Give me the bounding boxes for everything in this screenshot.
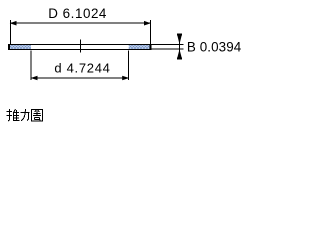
washer section hatch right — [129, 45, 150, 49]
serif B top — [177, 34, 182, 36]
washer right end cap — [150, 44, 152, 50]
serif B bottom — [177, 57, 182, 59]
extension line d left — [30, 51, 32, 81]
dimension line D — [10, 22, 151, 24]
extension line D right — [150, 20, 152, 44]
centerline tick — [80, 40, 82, 53]
washer body outline — [9, 45, 151, 50]
extension line B bottom — [151, 48, 184, 50]
caption glyph 推 — [7, 109, 20, 121]
washer section hatch left — [10, 45, 31, 49]
arrowhead D right — [144, 21, 151, 26]
extension line D left — [10, 20, 12, 44]
arrowhead d right — [122, 76, 129, 81]
arrowhead B up — [177, 49, 181, 58]
dimension line d — [31, 77, 129, 79]
arrowhead D left — [10, 21, 17, 26]
washer left end cap — [8, 44, 10, 50]
extension line d right — [128, 51, 130, 81]
dimension line B vertical — [179, 34, 181, 59]
svg-text:B 0.0394: B 0.0394 — [187, 39, 242, 54]
svg-text:D 6.1024: D 6.1024 — [48, 6, 107, 21]
caption glyph 力 — [21, 109, 30, 121]
svg-text:d 4.7244: d 4.7244 — [54, 60, 110, 75]
caption glyph 圈 — [32, 110, 43, 122]
extension line B top — [151, 44, 184, 46]
arrowhead d left — [31, 76, 38, 81]
arrowhead B down — [177, 35, 181, 44]
